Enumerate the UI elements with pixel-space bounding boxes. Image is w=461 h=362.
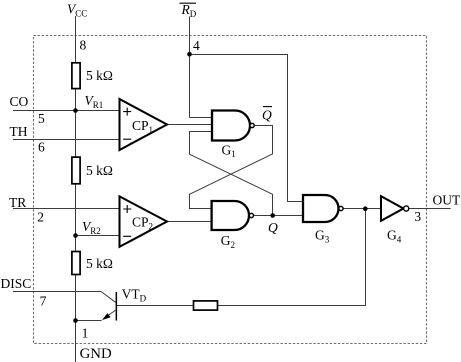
wire G4 output to OUT <box>408 208 450 210</box>
node emitter junction <box>73 318 78 323</box>
svg-text:DISC: DISC <box>1 276 32 291</box>
wire Q output to G3 <box>254 215 304 217</box>
svg-text:GND: GND <box>80 346 112 362</box>
wire TH input <box>13 139 120 141</box>
svg-text:CO: CO <box>10 94 29 109</box>
transistor VTD base bar <box>116 292 118 321</box>
wire VCC rail <box>75 16 77 362</box>
transistor VTD emitter <box>104 310 117 319</box>
svg-text:5 kΩ: 5 kΩ <box>86 163 113 178</box>
node Q junction <box>270 213 275 218</box>
svg-text:TH: TH <box>10 124 28 139</box>
svg-text:3: 3 <box>414 209 421 224</box>
node VR1 junction <box>73 108 78 113</box>
wire pin4 branch to G3 <box>190 55 304 202</box>
wire TR input <box>13 208 120 210</box>
wire CO input <box>13 110 120 112</box>
node pin4 junction <box>187 52 192 57</box>
svg-text:OUT: OUT <box>433 192 461 207</box>
resistor R1 5k <box>72 63 80 89</box>
resistor base R4 <box>194 301 218 310</box>
svg-text:1: 1 <box>82 325 89 340</box>
wire RD vertical <box>189 17 191 118</box>
resistor R3 5k <box>72 252 80 275</box>
svg-text:5 kΩ: 5 kΩ <box>86 256 113 271</box>
node VR2 junction <box>73 233 78 238</box>
inverter G4 <box>381 196 403 221</box>
op-amp CP1 <box>120 99 168 150</box>
svg-text:2: 2 <box>37 210 44 225</box>
transistor VTD collector <box>101 292 116 303</box>
wire emitter to GND rail <box>76 320 102 322</box>
wire G1 top input <box>190 117 213 119</box>
wire G3 junction down to base resistor <box>117 209 366 306</box>
wire VR2 to CP2 <box>76 235 120 237</box>
node G3-G4 junction <box>363 206 368 211</box>
wire CP1 output <box>167 124 212 126</box>
IC boundary dashed box <box>34 36 427 344</box>
svg-text:8: 8 <box>80 37 87 52</box>
nand gate G3 <box>303 195 339 222</box>
svg-text:7: 7 <box>40 293 47 308</box>
wire CP2 output <box>167 221 212 223</box>
resistor R2 5k <box>72 157 80 184</box>
svg-text:Q: Q <box>268 220 278 235</box>
wire DISC input <box>13 291 101 293</box>
svg-text:TR: TR <box>9 195 26 210</box>
svg-text:5 kΩ: 5 kΩ <box>86 68 113 83</box>
wire G3 output <box>343 208 381 210</box>
nand gate G1 <box>212 111 250 141</box>
op-amp CP2 <box>120 196 168 246</box>
wire Q feedback to G1 <box>190 132 273 216</box>
nand gate G2 <box>212 201 249 230</box>
svg-text:4: 4 <box>193 38 200 53</box>
svg-text:5: 5 <box>38 111 45 126</box>
svg-text:6: 6 <box>38 139 45 154</box>
wire Qbar output and feedback to G2 <box>190 126 273 209</box>
svg-text:Q: Q <box>262 108 272 123</box>
